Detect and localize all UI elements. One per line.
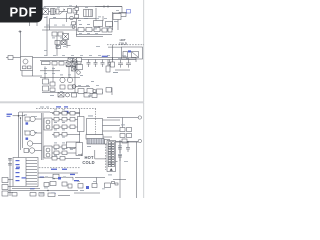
wire — [76, 34, 112, 36]
node junction — [18, 115, 20, 117]
wire — [33, 143, 42, 145]
wire — [76, 36, 103, 38]
resistor R31 — [25, 131, 30, 135]
rectifier cluster — [68, 58, 73, 62]
diode D22 blue — [26, 138, 29, 140]
svg-text:COLD: COLD — [119, 42, 127, 46]
resistor R12 — [68, 85, 73, 89]
wire — [95, 8, 97, 21]
resistor R45 — [62, 145, 67, 149]
resistor R43 — [62, 133, 67, 137]
resistor R9 — [52, 62, 57, 66]
connector CN1 pins grid — [108, 142, 114, 167]
wire — [40, 77, 80, 79]
wire — [9, 158, 11, 196]
wire — [38, 177, 73, 180]
wire — [40, 59, 76, 61]
capacitor C20 — [122, 139, 127, 143]
wire — [135, 142, 137, 198]
capacitor C7 — [123, 52, 128, 58]
wire — [112, 12, 114, 30]
ic U5 — [113, 14, 121, 20]
wire — [66, 66, 80, 68]
resistor R1 — [94, 21, 103, 27]
wire — [8, 186, 13, 188]
test point arrow — [78, 154, 82, 156]
connector J1 — [8, 56, 13, 60]
wire — [36, 22, 38, 26]
resistor R21 — [111, 62, 115, 67]
capacitor C2c — [75, 8, 79, 11]
wire — [21, 71, 23, 77]
wire row — [52, 113, 80, 115]
resistor R49 — [52, 157, 57, 161]
wire — [103, 136, 112, 138]
resistor R42 — [54, 133, 59, 137]
wire — [66, 13, 68, 22]
capacitor C25 — [115, 183, 118, 185]
connector pin P2 — [138, 139, 141, 142]
resistor R58 — [44, 183, 49, 187]
isolation dashed lower — [36, 167, 80, 169]
resistor R17 — [97, 89, 103, 94]
wire row — [52, 126, 80, 128]
resistor R16 — [106, 66, 110, 72]
resistor R18 — [72, 93, 77, 97]
transformer T5 winding B — [44, 146, 52, 158]
wire — [95, 6, 122, 8]
transistor Q5 — [77, 71, 81, 75]
line filter FL1 — [51, 9, 56, 15]
wire corner — [95, 150, 106, 159]
wire — [35, 150, 42, 152]
transistor Q4 — [66, 93, 70, 97]
diode D4 — [78, 89, 84, 94]
wire — [117, 20, 119, 31]
page 2 right border — [143, 103, 145, 198]
net label blue b2 — [62, 169, 67, 170]
resistor R44 — [54, 145, 59, 149]
connector CN1 polarity mark — [110, 168, 113, 171]
wire — [103, 125, 121, 127]
net label blue n2 — [40, 177, 45, 178]
snubber block frame — [122, 47, 143, 59]
wire main bus — [42, 29, 112, 31]
wire — [111, 88, 113, 96]
capacitor C24 — [112, 182, 115, 184]
net label blue left — [7, 114, 13, 115]
mosfet block Q15 — [76, 143, 83, 156]
diode D3 — [128, 50, 131, 52]
capacitor bank C17 — [108, 60, 112, 68]
capacitor C22 — [118, 156, 122, 162]
net label blue n3 — [30, 188, 35, 189]
wire — [8, 192, 13, 194]
net label blue n1 — [22, 177, 27, 178]
resistor R1b — [72, 22, 76, 25]
net label blue b4 — [74, 180, 79, 181]
capacitor bank C16 — [101, 60, 105, 68]
wire — [112, 141, 138, 143]
resistor R6 — [86, 28, 92, 32]
PDF badge — [0, 0, 43, 23]
zener D2 — [127, 10, 131, 14]
fuse F1 — [56, 9, 59, 14]
resistor R7 — [94, 28, 100, 32]
wire — [77, 18, 96, 20]
wire — [74, 192, 100, 194]
wire — [122, 118, 124, 128]
resistor R28 — [106, 88, 112, 93]
diode D1 — [119, 13, 126, 17]
wire — [115, 141, 138, 143]
capacitor C9 — [72, 62, 77, 66]
wire ground bus — [42, 92, 103, 94]
net label blue m1 — [16, 167, 20, 168]
ic U10 body — [13, 158, 38, 187]
resistor R40 — [62, 125, 67, 129]
resistor R35 — [70, 112, 75, 116]
resistor R30 — [25, 117, 30, 121]
resistor R4 — [58, 32, 63, 36]
resistor R13 — [50, 82, 55, 86]
diode D24 blue — [86, 186, 89, 189]
resistor R39 — [54, 125, 59, 129]
wire — [135, 58, 137, 63]
capacitor C27 — [8, 164, 12, 166]
capacitor C28 — [39, 193, 44, 197]
wire — [19, 111, 50, 113]
transformer T4 — [72, 67, 77, 71]
transistor Q0 — [72, 26, 75, 29]
resistor R36 — [54, 118, 59, 122]
capacitor bank C14 — [87, 60, 91, 68]
capacitor C1 — [68, 9, 72, 14]
wire row — [52, 152, 80, 154]
tick — [67, 45, 71, 47]
wire — [68, 66, 70, 78]
connector J3 — [2, 185, 8, 190]
wire — [112, 45, 114, 60]
capacitor C6 — [108, 28, 112, 32]
transformer T1 shield — [87, 139, 104, 145]
wire — [35, 118, 41, 120]
transistor Q2b — [72, 85, 76, 89]
capacitor C2 — [73, 9, 77, 14]
wire — [112, 58, 114, 63]
wire — [56, 36, 58, 56]
transformer T3 — [63, 34, 69, 40]
svg-text:COLD: COLD — [82, 160, 94, 165]
node junction — [127, 141, 128, 142]
resistor R46 — [70, 145, 75, 149]
connector CN1 body — [107, 141, 116, 172]
net label VCC blue — [56, 106, 61, 107]
wire — [21, 113, 23, 149]
capacitor C4 — [61, 41, 66, 45]
wire — [102, 16, 104, 21]
resistor R57 — [50, 182, 56, 186]
wire bottom bus — [8, 190, 78, 192]
wire — [75, 177, 105, 179]
wire — [20, 118, 22, 151]
wire AC link — [42, 11, 68, 13]
resistor R5 — [78, 28, 84, 32]
wire — [44, 67, 46, 80]
wire — [76, 60, 78, 71]
resistor R38 — [70, 118, 75, 122]
wire — [98, 26, 100, 30]
wire — [50, 112, 80, 114]
ic U10 pin labels blue — [16, 160, 20, 161]
mosfet block Q14 — [78, 117, 85, 132]
wire — [35, 132, 41, 134]
resistor R51 — [105, 140, 110, 145]
resistor R55 — [127, 134, 132, 138]
resistor R32 — [24, 149, 29, 153]
wire — [76, 5, 78, 36]
connector J2 — [2, 178, 8, 183]
capacitor C5 — [102, 28, 107, 32]
isolation boundary dashed — [107, 44, 144, 46]
transistor Q2 — [67, 77, 72, 82]
diode D8 — [77, 58, 82, 62]
resistor R52 — [120, 128, 125, 132]
wire — [74, 62, 76, 93]
resistor R61 — [92, 184, 97, 188]
resistor R64 — [30, 193, 36, 197]
wire — [29, 22, 31, 26]
wire — [108, 46, 122, 48]
node junction — [47, 190, 48, 191]
ic U6 — [132, 52, 139, 58]
wire — [40, 70, 60, 72]
driver transformer T5 core — [42, 113, 44, 160]
resistor R63 — [12, 193, 17, 197]
ic U4 — [76, 65, 83, 70]
ic U10 pin rows — [26, 158, 37, 186]
diode D5 — [87, 89, 93, 94]
resistor R33 — [54, 112, 59, 116]
capacitor bank C15 — [94, 60, 98, 68]
resistor R41 — [70, 125, 75, 129]
transistor Q11 — [30, 130, 35, 135]
wire — [58, 195, 70, 197]
resistor R50 — [60, 157, 65, 161]
resistor R60 — [78, 184, 83, 189]
diode D21 blue — [26, 122, 29, 124]
wire — [107, 60, 109, 67]
wire — [33, 57, 43, 59]
resistor R56 — [53, 174, 59, 178]
resistor R53 — [127, 128, 132, 132]
page 1 right border — [143, 0, 145, 102]
wire — [75, 86, 90, 88]
inductor L1 — [84, 10, 93, 17]
transformer T1 core dashes — [95, 109, 97, 145]
wire — [20, 31, 22, 57]
connector pin P1 — [138, 116, 141, 119]
resistor R65 — [48, 193, 55, 197]
wire — [38, 172, 78, 174]
capacitor C11 — [43, 86, 49, 91]
resistor R20 — [92, 94, 97, 98]
resistor R8 — [42, 62, 51, 65]
wire — [107, 117, 138, 119]
wire — [115, 69, 130, 71]
switch SW1 — [60, 9, 66, 15]
transistor Q13 — [29, 148, 34, 153]
page separator — [0, 101, 144, 103]
wire AC top bus — [44, 6, 122, 8]
wire — [18, 112, 20, 158]
capacitor C26 — [8, 159, 12, 161]
net label blue n4 — [51, 193, 56, 194]
transformer T1 lower winding — [86, 135, 103, 140]
connector J4 — [2, 191, 8, 196]
isolation dashed top — [36, 108, 96, 110]
wire — [103, 119, 121, 121]
capacitor C10 — [43, 79, 49, 84]
diode D20 blue — [65, 111, 69, 113]
wire — [103, 130, 121, 132]
wire — [46, 16, 48, 56]
wire — [96, 178, 98, 187]
diode D23 blue — [58, 177, 61, 180]
wire — [109, 26, 111, 30]
capacitor C2b — [75, 15, 79, 19]
diode D7 — [69, 58, 73, 61]
varistor RV1 — [70, 16, 74, 20]
resistor R34 — [62, 112, 67, 116]
resistor R13b — [50, 88, 55, 92]
wire — [6, 57, 21, 59]
node junction 2 — [20, 117, 21, 118]
capacitor C8 — [66, 62, 71, 66]
wire — [121, 7, 123, 14]
transistor Q1 — [60, 77, 65, 82]
bridge rectifier BD1 — [43, 9, 49, 15]
resistor R54 — [120, 134, 125, 138]
transistor Q3 — [93, 89, 96, 92]
capacitor C21 — [118, 142, 122, 153]
resistor R48 — [62, 151, 67, 155]
capacitor C12 — [118, 60, 123, 68]
wire — [76, 59, 136, 61]
capacitor C3 — [55, 41, 60, 45]
wire — [119, 140, 121, 198]
capacitor C22b — [126, 142, 130, 152]
net label blue p1 — [102, 56, 108, 57]
resistor R62 — [105, 183, 111, 188]
wire row — [52, 158, 80, 160]
resistor R22 — [77, 61, 81, 64]
simulated text page 2 — [24, 107, 128, 195]
snubber frame page2 — [66, 142, 79, 148]
wire — [13, 115, 26, 117]
wire row — [52, 146, 80, 148]
transistor Q10 — [30, 116, 35, 121]
transformer T5 winding A — [44, 118, 52, 130]
resistor R3 — [52, 32, 57, 36]
resistor R10 — [59, 62, 64, 66]
wire — [12, 188, 40, 190]
wire — [66, 40, 68, 49]
resistor R37 — [62, 118, 67, 122]
wire — [52, 67, 54, 83]
tick — [104, 5, 108, 8]
wire main secondary bus — [42, 57, 136, 59]
wire — [113, 179, 126, 181]
wire — [44, 26, 76, 28]
diode D6 — [58, 93, 64, 98]
net label blue b3 — [70, 174, 75, 175]
wire — [32, 71, 34, 77]
transistor Q12 — [27, 141, 32, 146]
wire row — [52, 119, 80, 121]
net label blue b1 — [51, 169, 57, 170]
resistor R27 — [56, 46, 61, 49]
wire — [79, 132, 81, 143]
resistor R59 — [62, 182, 67, 186]
resistor R2 — [106, 22, 113, 27]
resistor R19 — [84, 93, 90, 97]
svg-text:PDF: PDF — [10, 5, 38, 20]
resistor R11 — [60, 85, 65, 89]
net label blue — [64, 106, 68, 107]
wire — [79, 109, 81, 117]
isolation dashed vertical — [105, 141, 107, 170]
resistor R47 — [54, 151, 59, 155]
node plus — [19, 30, 22, 33]
wire — [8, 179, 13, 181]
wire — [113, 12, 128, 14]
capacitor C13 — [126, 60, 131, 68]
wire — [22, 75, 42, 77]
optocoupler U3 — [21, 57, 33, 71]
capacitor C23 — [68, 184, 72, 188]
tick — [114, 161, 118, 163]
wire corner — [50, 19, 77, 30]
main transformer T1 body — [87, 119, 103, 135]
wire row — [52, 134, 80, 136]
simulated text page 1 — [43, 6, 129, 97]
net label blue left2 — [7, 116, 11, 117]
